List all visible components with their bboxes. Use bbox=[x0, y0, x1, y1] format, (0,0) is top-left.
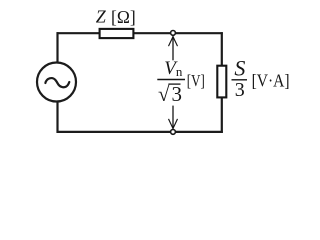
svg-text:Z: Z bbox=[96, 7, 107, 27]
wire left vertical lower bbox=[56, 101, 58, 133]
svg-text:[Ω]: [Ω] bbox=[111, 7, 136, 27]
sqrt 3 denominator bbox=[158, 82, 182, 106]
node bottom bbox=[171, 130, 176, 135]
svg-text:[V·A]: [V·A] bbox=[252, 71, 290, 91]
wire right vertical upper bbox=[221, 32, 223, 65]
label Vn numerator bbox=[164, 58, 183, 79]
svg-text:S: S bbox=[234, 56, 245, 81]
wire left vertical upper bbox=[56, 32, 58, 63]
svg-text:√: √ bbox=[158, 82, 170, 106]
node top bbox=[171, 31, 176, 36]
load box S bbox=[217, 66, 226, 98]
wire top-left horizontal bbox=[57, 32, 100, 34]
wire right vertical lower bbox=[221, 98, 223, 133]
label Z [ohm] bbox=[96, 7, 136, 27]
svg-text:3: 3 bbox=[172, 82, 183, 106]
resistor Z bbox=[100, 29, 134, 38]
voltage arrow up bbox=[169, 37, 178, 61]
fraction bar S/3 bbox=[232, 79, 248, 81]
fraction bar Vn/sqrt3 bbox=[157, 79, 185, 81]
voltage arrow down bbox=[169, 106, 178, 129]
wire bottom horizontal bbox=[57, 131, 223, 133]
ac source V1 bbox=[37, 63, 76, 102]
svg-text:n: n bbox=[176, 64, 183, 79]
wire top-right horizontal bbox=[134, 32, 223, 34]
svg-text:3: 3 bbox=[235, 79, 245, 101]
svg-text:[V]: [V] bbox=[187, 71, 205, 90]
